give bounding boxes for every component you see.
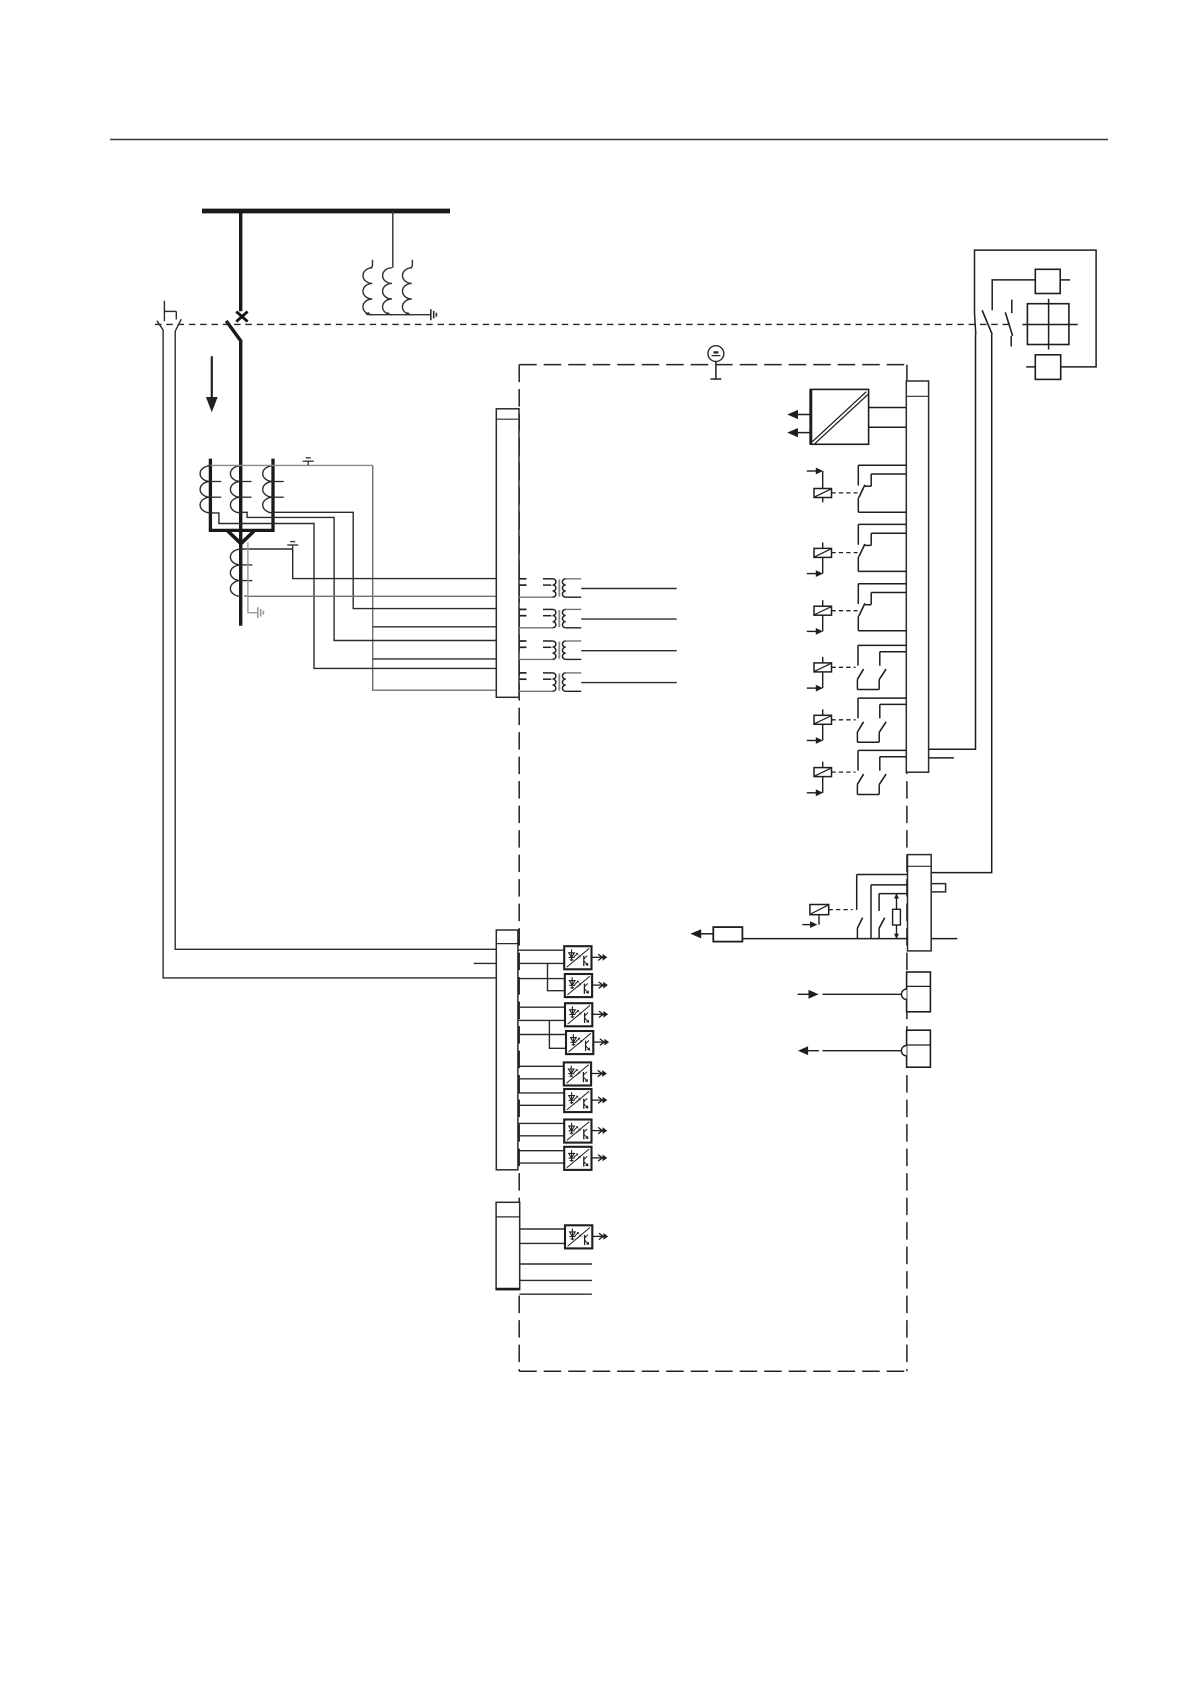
wire aux spare 1 xyxy=(520,1263,592,1265)
CT primary bar C xyxy=(271,459,274,531)
wire BI6 top xyxy=(518,1092,564,1094)
wire BI8 bottom xyxy=(518,1162,564,1164)
BI6 out arrow xyxy=(592,1097,608,1104)
port box 2 xyxy=(907,1030,931,1067)
wire trip A xyxy=(929,334,976,749)
opto BI9 xyxy=(565,1225,592,1248)
terminal strip (BO7) xyxy=(908,855,932,951)
BO2 coil xyxy=(807,542,832,577)
BO4 coil xyxy=(807,657,832,692)
wire BI6 bottom xyxy=(518,1104,564,1106)
input transformer IL2 (row3) xyxy=(519,641,677,659)
BO7 coil link xyxy=(829,909,853,911)
wire return branch row2 xyxy=(373,626,497,628)
CT bottom bar xyxy=(209,529,275,532)
wire left outer down xyxy=(163,331,496,978)
opto BI2 xyxy=(565,974,592,997)
busbar xyxy=(202,209,450,214)
earth at neutral CT xyxy=(287,542,298,549)
trip coil upper xyxy=(1035,269,1060,293)
wire BI5 bottom xyxy=(518,1078,564,1080)
trip coil lower xyxy=(1035,355,1060,380)
relay housing dashed border xyxy=(519,365,907,1372)
star point V xyxy=(228,531,242,544)
CT primary bar A xyxy=(209,459,212,531)
wire BI3 top xyxy=(518,1006,565,1008)
power supply unit xyxy=(811,389,869,444)
wire common down (neutral return) xyxy=(373,465,497,690)
wire neutral CT to input row1 xyxy=(293,549,497,579)
arrow port1 (incoming) xyxy=(798,990,819,999)
strip tab xyxy=(931,884,945,892)
BI9 out arrow xyxy=(592,1233,608,1240)
input transformer IL3 (row2) xyxy=(519,609,677,627)
terminal strip (outputs) xyxy=(906,381,928,772)
wire PS output upper xyxy=(869,407,907,409)
wire left inner down xyxy=(175,331,496,949)
wire trip coil upper leads xyxy=(992,280,1035,310)
wire BI4 common jog xyxy=(549,1020,566,1048)
wire stub BO6 xyxy=(929,757,954,759)
BI8 out arrow xyxy=(592,1155,608,1162)
breaker aux contact A xyxy=(975,313,976,334)
connector ticks xyxy=(157,321,164,331)
wire CT A to input row4 xyxy=(210,513,496,669)
BO4 coil link xyxy=(832,666,856,668)
BI3 out arrow xyxy=(592,1011,608,1018)
BO5 contact xyxy=(857,698,906,742)
input transformer IL1 (row4) xyxy=(519,673,677,691)
terminal block (aux) xyxy=(496,1202,520,1289)
opto BI5 xyxy=(564,1062,591,1085)
opto BI1 xyxy=(564,946,591,969)
circuit breaker X symbol xyxy=(236,312,247,322)
wire CT C to input row2 xyxy=(273,512,496,608)
breaker mechanism square xyxy=(1027,304,1069,345)
wire BO7 common (annunciation) xyxy=(742,938,907,940)
breaker box outline xyxy=(975,250,1097,367)
voltage transformer drop from busbar xyxy=(392,211,394,268)
main dashed mimic line xyxy=(155,323,1013,325)
BI2 out arrow xyxy=(592,982,608,989)
wire port2 xyxy=(823,1050,902,1052)
BI5 out arrow xyxy=(591,1070,607,1077)
wire BI7 bottom xyxy=(518,1135,564,1137)
BO1 contact xyxy=(858,465,906,512)
wire port1 xyxy=(823,993,902,995)
CT coil ticks xyxy=(210,482,283,498)
opto BI7 xyxy=(564,1120,591,1143)
wire aux spare 2 xyxy=(520,1279,592,1281)
wire feeder to CTs xyxy=(239,341,242,626)
VT coil b xyxy=(383,268,392,315)
BO3 coil link xyxy=(832,610,858,612)
terminal block (current inputs) xyxy=(496,409,519,698)
wire neutral CT top to earth xyxy=(241,548,293,550)
input transformer IN (row1) xyxy=(519,579,677,597)
BO5 coil xyxy=(807,709,832,744)
wire BI1 top xyxy=(518,949,564,951)
annunciation box xyxy=(713,927,742,942)
BO7 contact assembly xyxy=(857,875,908,939)
opto BI3 xyxy=(565,1003,592,1026)
opto BI4 xyxy=(566,1031,593,1054)
wire BI4 top xyxy=(518,1034,566,1036)
BO6 coil link xyxy=(832,771,856,773)
wire BO7 right stub xyxy=(931,938,957,940)
BI1 out arrow xyxy=(592,954,608,961)
CT coil C xyxy=(263,466,273,513)
BI4 out arrow xyxy=(593,1039,609,1046)
neutral CT coil xyxy=(230,549,240,596)
star earth (rotated, grey) xyxy=(258,607,264,618)
wire CT B to input row3 xyxy=(241,512,497,640)
wire feeder drop xyxy=(239,211,242,311)
BO2 coil link xyxy=(832,552,858,554)
top rule xyxy=(110,139,1108,141)
BO5 coil link xyxy=(832,719,856,721)
VT coil a xyxy=(363,260,373,315)
wire BI5 top xyxy=(518,1065,564,1067)
wire return branch row3 xyxy=(373,658,497,660)
port2 socket xyxy=(901,1046,906,1056)
opto BI8 xyxy=(564,1147,591,1170)
BO3 contact xyxy=(858,584,906,631)
BI7 out arrow xyxy=(592,1127,608,1134)
wire neutral CT bottom to block xyxy=(244,595,496,597)
star point earth lead xyxy=(248,543,257,613)
opto BI6 xyxy=(564,1089,591,1112)
wire BI7 top xyxy=(518,1122,564,1124)
wire PS output lower xyxy=(869,426,907,428)
VT coil c xyxy=(402,260,412,315)
VT common wire xyxy=(366,312,431,315)
wire stub left of BI block xyxy=(474,962,497,964)
terminal block (binary inputs) xyxy=(496,930,518,1170)
wire trip coil lower leads xyxy=(1026,366,1035,368)
wire BI9 bottom xyxy=(520,1242,565,1244)
BO6 contact xyxy=(857,750,906,794)
wire BI2 top xyxy=(518,978,565,980)
wire BI9 top xyxy=(520,1228,565,1230)
wire BI3/BI4 common xyxy=(518,1019,565,1021)
VT earth (rotated) xyxy=(431,309,437,320)
BO4 contact xyxy=(857,645,906,689)
breaker aux contact B (NC) xyxy=(1011,300,1013,314)
wire BI8 top xyxy=(518,1150,564,1152)
CT coil A xyxy=(200,466,210,513)
wire aux spare 3 xyxy=(519,1293,592,1295)
port box 1 xyxy=(907,972,931,1012)
load-direction arrow xyxy=(211,356,213,399)
BO1 coil xyxy=(807,468,832,503)
left connector bracket xyxy=(164,301,176,321)
BO2 contact xyxy=(858,524,906,571)
CT secondary common wire xyxy=(210,464,372,466)
case earth terminal xyxy=(708,346,724,379)
BO3 coil xyxy=(807,600,832,635)
wire trip B xyxy=(931,334,992,872)
arrow port2 (outgoing) xyxy=(798,1046,819,1055)
BO7 coil xyxy=(802,905,828,929)
wire BI1/BI2 common xyxy=(518,962,564,964)
port1 socket xyxy=(901,989,906,999)
disconnector blade xyxy=(226,321,241,342)
PS arrow lower xyxy=(787,428,810,437)
wire BI2 common jog xyxy=(548,963,565,990)
earth at CT common xyxy=(303,458,314,466)
neutral CT ticks xyxy=(241,565,253,581)
PS arrow upper xyxy=(787,410,810,419)
CT coil B xyxy=(230,466,240,513)
annunciation arrow xyxy=(690,929,713,938)
BO1 coil link xyxy=(832,492,858,494)
BO6 coil xyxy=(807,762,832,797)
BO7 resistor branch xyxy=(893,893,901,938)
